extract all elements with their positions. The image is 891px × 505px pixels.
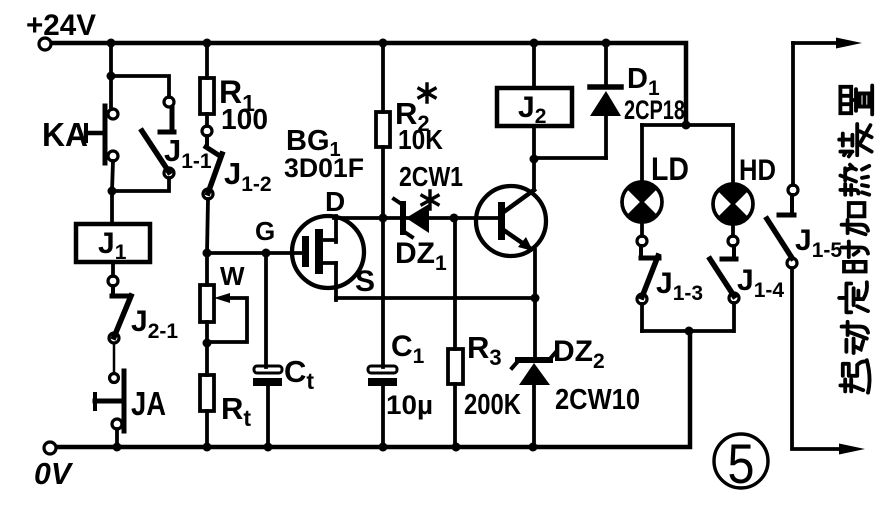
node junction dots drain row <box>379 214 388 223</box>
wire Ct to 0V rail <box>266 386 270 447</box>
diode D1 <box>590 43 621 158</box>
svg-text:D: D <box>325 186 345 217</box>
diode DZ1 zener <box>394 199 429 237</box>
svg-text:Ct: Ct <box>284 354 314 394</box>
transistor Q1 NPN <box>476 186 546 256</box>
char 装 <box>839 124 871 156</box>
wire JA to 0V rail <box>115 429 119 447</box>
svg-text:J1-1: J1-1 <box>164 133 212 173</box>
wire C1 to 0V rail <box>381 386 385 447</box>
char 起 <box>840 360 869 392</box>
wire heater branch vertical lower with arrow <box>792 268 847 449</box>
capacitor Ct <box>253 366 282 386</box>
wire down to relay J1 <box>110 191 114 224</box>
switch J1-3 <box>637 236 659 304</box>
wire LD to J1-3 <box>640 222 644 236</box>
wire J1-1 lower lead <box>116 178 169 191</box>
wire J1-4 lower <box>732 303 736 331</box>
relay coil J2 <box>497 88 572 126</box>
char 定 <box>839 282 868 312</box>
svg-text:+24V: +24V <box>26 9 96 42</box>
switch J2-1 <box>108 276 131 343</box>
svg-text:10K: 10K <box>398 124 443 155</box>
svg-text:J1-2: J1-2 <box>224 156 272 196</box>
svg-text:10µ: 10µ <box>386 390 433 420</box>
wire W branch <box>205 253 209 285</box>
wire heater branch vertical upper <box>791 43 795 185</box>
svg-text:S: S <box>355 265 375 298</box>
wire source-emitter row <box>336 296 535 300</box>
node junction dot <box>530 155 539 164</box>
node junction D1 branch / +24V rail <box>602 39 611 48</box>
wire J1-3 lower <box>640 304 644 331</box>
wire KA lower lead <box>112 161 113 191</box>
switch J1-1 <box>142 97 174 178</box>
svg-text:LD: LD <box>651 151 689 187</box>
node junction R1 branch / +24V rail <box>203 39 212 48</box>
svg-text:J1-3: J1-3 <box>656 267 703 305</box>
wire emitter down <box>533 250 537 298</box>
svg-text:100: 100 <box>221 104 268 136</box>
svg-text:G: G <box>255 216 275 246</box>
wire KA/J1-1 branch top <box>109 43 113 76</box>
svg-text:C1: C1 <box>391 330 425 368</box>
label vertical title 起动定时加热装置 <box>839 86 872 393</box>
svg-text:2CW10: 2CW10 <box>555 384 640 416</box>
resistor R1 <box>200 78 214 114</box>
wire R2 to drain node <box>381 147 385 218</box>
svg-text:Rt: Rt <box>221 391 251 431</box>
wire R2 branch top <box>381 43 385 112</box>
svg-text:DZ1: DZ1 <box>395 237 447 275</box>
node junction JA / 0V rail <box>113 443 122 452</box>
char 时 <box>842 241 868 271</box>
wire J2 branch <box>532 43 536 88</box>
node 0V terminal <box>44 442 56 454</box>
switch J1-5 <box>767 185 798 268</box>
lamp LD <box>622 182 662 222</box>
node junction dot <box>108 187 117 196</box>
potentiometer W <box>200 285 247 342</box>
wire W to Rt <box>205 322 209 375</box>
label DZ1 asterisk <box>422 191 438 209</box>
svg-text:5: 5 <box>728 432 755 495</box>
figure number 5 circle <box>714 434 768 488</box>
label R2 asterisk <box>419 84 435 102</box>
char 热 <box>840 165 869 195</box>
svg-text:J1: J1 <box>98 227 127 264</box>
node G junction dots <box>203 249 212 258</box>
node junction Ct / 0V rail <box>264 443 273 452</box>
svg-text:J1-4: J1-4 <box>737 264 784 302</box>
svg-text:HD: HD <box>739 154 776 187</box>
wire Rt to 0V rail <box>205 411 209 447</box>
svg-text:W: W <box>220 261 245 291</box>
wire R1 to J1-2 <box>205 114 209 126</box>
wire freewheel row <box>534 156 606 160</box>
switch J1-2 <box>202 126 222 199</box>
node junction J2 branch / +24V rail <box>530 39 539 48</box>
wire bottom 0V rail <box>57 331 690 447</box>
node junction dot <box>203 339 212 348</box>
wire Ct branch <box>264 253 268 367</box>
resistor R2 <box>376 112 390 147</box>
svg-text:JA: JA <box>131 385 166 422</box>
svg-text:J1-5: J1-5 <box>795 224 842 262</box>
switch KA pushbutton <box>86 106 118 163</box>
capacitor C1 <box>368 366 397 386</box>
char 置 <box>840 86 872 115</box>
wire lamp row <box>642 123 733 127</box>
node junction Rt / 0V rail <box>203 443 212 452</box>
wire heater branch top with arrow <box>793 41 848 45</box>
relay coil J1 <box>76 224 150 262</box>
wire drain row <box>334 216 498 220</box>
node junction dot <box>682 121 691 130</box>
wire J2 to collector <box>532 126 536 190</box>
wire R3 to 0V rail <box>453 384 457 447</box>
wire LD top lead <box>640 125 644 182</box>
wire KA upper lead <box>109 76 113 109</box>
char 加 <box>842 203 868 234</box>
wire R3 branch <box>453 218 457 349</box>
switch J1-4 <box>710 236 739 303</box>
svg-text:J2: J2 <box>518 91 546 128</box>
char 动 <box>842 322 868 353</box>
wire lamp join row <box>642 329 733 333</box>
wire HD top lead <box>731 125 735 184</box>
svg-text:J2-1: J2-1 <box>131 305 178 343</box>
resistor R3 <box>448 349 463 384</box>
svg-text:DZ2: DZ2 <box>553 335 605 373</box>
svg-text:R3: R3 <box>467 330 502 370</box>
wire R1 branch top <box>205 43 209 78</box>
svg-text:2CP18: 2CP18 <box>624 95 685 125</box>
switch JA pushbutton <box>95 371 124 431</box>
wire J2-1 to JA <box>113 343 116 373</box>
node junction dot <box>107 72 116 81</box>
resistor Rt <box>200 375 214 411</box>
transistor BG1 MOSFET <box>292 216 364 300</box>
wire top +24V rail <box>52 43 686 125</box>
node emitter junction dot <box>531 294 540 303</box>
node junction R3 / 0V rail <box>452 443 461 452</box>
node junction KA branch / +24V rail <box>107 39 116 48</box>
svg-text:0V: 0V <box>34 456 73 491</box>
lamp HD <box>713 184 753 224</box>
svg-text:2CW1: 2CW1 <box>399 161 463 192</box>
wire G row <box>207 251 305 255</box>
node junction DZ2 / 0V rail <box>529 443 538 452</box>
node +24V terminal <box>39 38 51 50</box>
wire to J1-1 upper <box>111 76 169 97</box>
wire J1-2 to G node <box>207 199 208 253</box>
wire HD to J1-4 <box>731 224 735 236</box>
node junction C1 / 0V rail <box>379 443 388 452</box>
wire J1 to J2-1 <box>111 262 115 276</box>
node junction R2 branch / +24V rail <box>379 39 388 48</box>
svg-text:200K: 200K <box>464 389 521 421</box>
wire drain node down to C1 <box>381 218 385 367</box>
zener DZ2 <box>512 298 556 447</box>
svg-text:3D01F: 3D01F <box>284 153 364 183</box>
node junction dot <box>685 327 694 336</box>
svg-text:KA: KA <box>42 116 88 153</box>
